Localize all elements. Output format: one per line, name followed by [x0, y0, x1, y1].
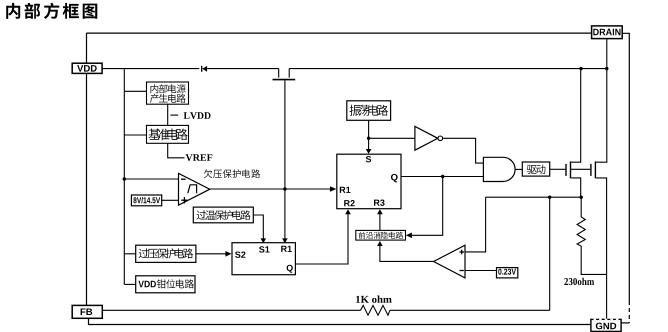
junction branch/UVLO input	[123, 177, 126, 180]
pin U2 inverting (-)	[181, 178, 186, 180]
wire blanking to R3	[379, 214, 381, 231]
wire left border upper (to VDD)	[86, 33, 88, 63]
block 过压保护电路	[136, 245, 196, 262]
arrowhead into R1 of U4	[330, 186, 336, 192]
op-amp U2 UVLO comparator	[179, 173, 210, 205]
label DRAIN	[593, 29, 620, 36]
wire top border VDD-to-DRAIN	[87, 32, 592, 34]
junction VDD rail / DRAIN stem	[605, 67, 608, 70]
hysteresis mark inside U2	[188, 185, 197, 194]
wire osc junction down	[368, 138, 370, 149]
arrowhead into S1 of latch U3	[261, 238, 267, 243]
wire to OVP box	[124, 253, 135, 255]
inverter U5	[415, 126, 438, 150]
arrowhead into R2 of U4	[345, 209, 351, 214]
wire right border (DRAIN down)	[622, 33, 629, 301]
and-gate U6	[483, 157, 515, 181]
value 230ohm	[564, 278, 594, 285]
junction sense/FB divider	[548, 196, 551, 199]
wire VDD rail middle segment	[207, 68, 279, 70]
label 过温保护电路	[197, 210, 251, 220]
pin R3	[374, 200, 385, 206]
value 1K ohm	[356, 296, 392, 303]
wire to internal supply box	[124, 90, 146, 92]
wire M2 source to GND	[606, 178, 608, 319]
junction osc/inverter	[367, 137, 370, 140]
wire FB line right	[390, 309, 550, 311]
block 内部电源产生电路	[147, 82, 189, 104]
wire U4 Q to AND bottom input	[401, 176, 483, 178]
op-amp U7 current comparator	[434, 245, 465, 278]
port DRAIN box	[592, 26, 623, 39]
wire to bandgap box	[124, 134, 146, 136]
resistor R2 230ohm	[577, 197, 607, 274]
junction sense/M1 source	[580, 196, 583, 199]
label 内部电源	[151, 84, 186, 93]
label 驱动	[527, 165, 546, 174]
label 前沿消隐电路	[359, 232, 404, 239]
label 钳位电路	[157, 279, 194, 288]
wire UVLO output to FF R1	[210, 188, 331, 190]
flip-flop U4 box	[337, 154, 401, 209]
label VDD (clamp)	[138, 281, 156, 288]
wire right border dashed bottom	[628, 301, 630, 323]
label GND	[596, 323, 616, 330]
wire VDD rail left segment	[102, 68, 199, 70]
label FB	[81, 309, 93, 316]
wire FB line left	[102, 309, 360, 311]
block 驱动	[522, 162, 549, 176]
label 0.23V	[498, 269, 516, 275]
label 振荡电路	[350, 105, 389, 116]
port VDD box	[72, 63, 102, 73]
wire M1 to M2 gate	[571, 168, 591, 170]
wire FB bottom hook	[89, 318, 591, 324]
arrowhead into S2 of latch U3	[225, 251, 231, 257]
wire U7 output to blanking	[380, 245, 434, 261]
arrowhead into S of U4	[366, 149, 372, 154]
block reference 0.23V	[497, 268, 518, 278]
wire Q1 gate down	[284, 80, 286, 189]
port GND box	[591, 319, 621, 331]
label 欠压保护电路	[204, 169, 260, 178]
wire LVDD	[167, 104, 169, 125]
wire DRAIN stem	[606, 39, 608, 69]
wire OVP to S2	[196, 253, 226, 255]
wire AND to driver	[515, 168, 522, 170]
wire sense to comparator +	[465, 197, 486, 252]
junction Q1-gate / UVLO output	[283, 187, 286, 190]
wire left border (VDD to FB)	[86, 73, 88, 305]
wire driver to M1 gate	[550, 168, 566, 170]
port FB box	[72, 305, 102, 318]
wire sense line	[486, 196, 582, 198]
arrowhead into R3 of U4	[377, 209, 383, 214]
arrowhead into blanking	[406, 233, 412, 239]
pin S1	[259, 246, 270, 252]
wire to S2 latch R1 input	[284, 189, 286, 239]
pin Q (U3)	[287, 265, 293, 273]
pin R1	[281, 246, 292, 252]
label 基准电路	[149, 129, 188, 141]
wire osc to S	[368, 120, 370, 138]
wire to UVLO inverting input	[124, 178, 178, 180]
wire sense to FB line	[549, 197, 551, 310]
pin U7 -	[460, 270, 464, 272]
arrowhead into R1 of latch U3	[282, 238, 288, 243]
block 过温保护电路	[193, 207, 253, 223]
tick LVDD	[170, 114, 178, 116]
label 8V/14.5V	[133, 197, 160, 203]
block 前沿消隐电路	[356, 230, 406, 240]
transistor M1 output MOSFET	[565, 164, 567, 176]
block VDD钳位电路	[136, 276, 195, 293]
wire VDD rail right segment (to DRAIN node)	[289, 68, 607, 70]
wire osc to inverter	[369, 137, 415, 139]
junction Q/blanking branch	[441, 175, 444, 178]
block 振荡电路	[347, 101, 391, 121]
wire U3 Q to FF R2	[295, 214, 348, 265]
pin S2	[235, 252, 245, 258]
wire Q to blanking input	[412, 177, 443, 236]
wire inverter out to AND top input	[443, 138, 484, 163]
latch U3 box	[232, 243, 295, 275]
block 基准电路	[147, 125, 189, 143]
wire threshold to U2 +	[162, 199, 179, 201]
wire GND-to-right-border hook	[621, 322, 629, 324]
label VREF	[186, 154, 213, 161]
label LVDD	[184, 112, 211, 119]
label 产生电路	[150, 94, 186, 103]
title 内部方框图	[6, 3, 97, 19]
pin R2	[344, 200, 355, 206]
transistor Q1 startup JFET	[278, 69, 280, 78]
label VDD	[77, 65, 97, 72]
resistor R1 1K ohm	[361, 305, 390, 315]
wire OTP to S1	[253, 215, 263, 239]
selection dashes on GND box top	[592, 318, 621, 320]
pin S	[366, 156, 371, 162]
label 过压保护电路	[139, 248, 193, 258]
wire VREF	[168, 143, 185, 158]
wire U7 - to 0.23V ref	[465, 270, 497, 272]
pin U2 non-inverting (+)	[181, 199, 187, 201]
transistor M2 output MOSFET	[590, 164, 592, 176]
junction VDD rail / M1 drain	[579, 67, 582, 70]
diode D1 (startup, cathode left)	[201, 66, 203, 72]
wire to VDD clamp box	[124, 283, 135, 285]
arrowhead into blanking bottom	[377, 241, 383, 246]
pin R1 (U4)	[340, 187, 351, 193]
pin Q (U4)	[391, 174, 398, 183]
block threshold 8V/14.5V	[131, 195, 161, 206]
wire internal VDD branch vertical	[123, 69, 125, 285]
pin U7 +	[459, 251, 464, 253]
